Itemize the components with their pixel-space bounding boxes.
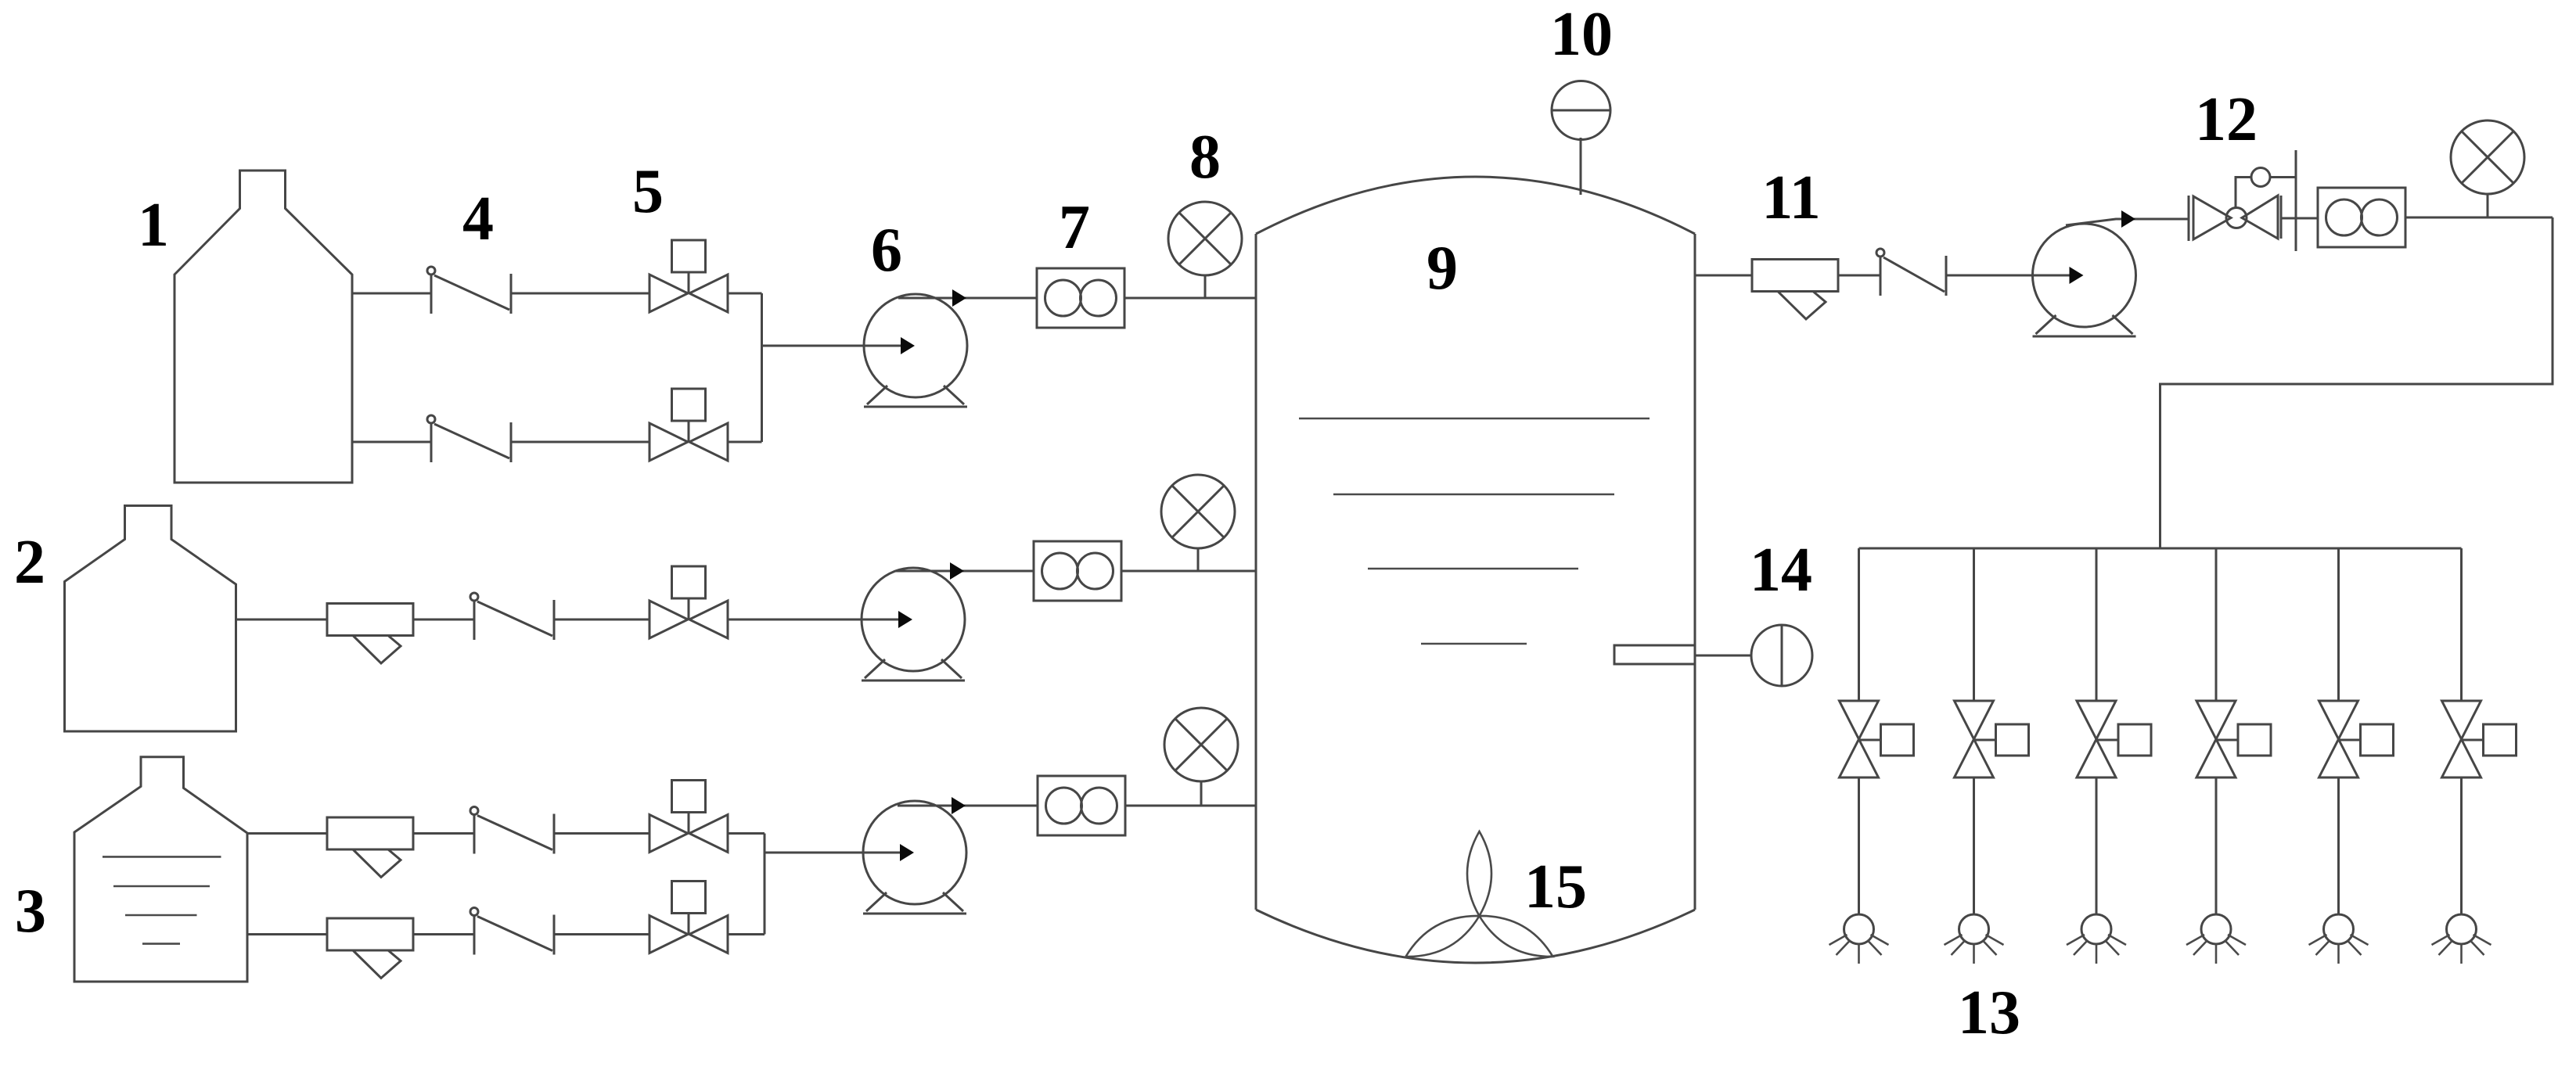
wire valve 12 to flowmeter <box>2281 217 2318 220</box>
svg-text:10: 10 <box>1550 0 1613 69</box>
check valve 4a <box>427 267 511 314</box>
wire valve tank3 bottom to junction <box>728 933 765 935</box>
wire strainer to check valve tank2 <box>413 619 474 621</box>
strainer tank3 top <box>327 817 413 878</box>
svg-text:12: 12 <box>2195 85 2258 154</box>
manifold valve branch5 <box>2319 701 2394 777</box>
pump row3 <box>863 801 966 914</box>
wire check valve 4a to valve 5a <box>511 293 649 295</box>
manifold valve branch1 <box>1840 701 1914 777</box>
wire check valve 4b to valve 5b <box>511 441 649 443</box>
arrow pump row2 outlet <box>950 562 964 580</box>
wire loop down right <box>2160 217 2553 548</box>
gauge 10 <box>1552 81 1610 140</box>
svg-text:11: 11 <box>1761 163 1821 232</box>
wire branch2 to nozzle <box>1973 777 1975 915</box>
wire vessel to strainer 11 <box>1695 275 1752 277</box>
check valve 4b <box>427 415 511 462</box>
wire flowmeter row3 to vessel <box>1125 805 1257 807</box>
control valve tank3 top <box>649 781 728 853</box>
pump 6 <box>864 294 967 407</box>
port nozzle 14 <box>1614 645 1695 664</box>
wire branch6 drop <box>2460 548 2463 702</box>
wire flowmeter 7 to vessel <box>1124 297 1257 300</box>
svg-text:2: 2 <box>14 528 45 597</box>
wire pump row4 outlet <box>2066 219 2189 225</box>
arrow pump row3 outlet <box>952 797 966 814</box>
gauge 14 <box>1751 625 1812 686</box>
wire tank2 to strainer <box>236 619 328 621</box>
gauge row4 <box>2451 120 2524 194</box>
nozzle branch4 <box>2186 914 2246 964</box>
svg-text:1: 1 <box>138 191 169 260</box>
pump row4 <box>2033 224 2136 336</box>
wire strainer to check valve tank3 bottom <box>413 933 474 935</box>
wire branch4 drop <box>2215 548 2218 702</box>
wire junction vertical tank3 <box>764 834 766 935</box>
wire flowmeter row2 to vessel <box>1121 570 1257 573</box>
control valve tank3 bottom <box>649 881 728 953</box>
control valve 5a <box>649 240 728 312</box>
svg-text:13: 13 <box>1958 978 2020 1047</box>
nozzle branch2 <box>1945 914 2004 964</box>
manifold valve branch3 <box>2077 701 2151 777</box>
pump row2 <box>862 568 965 680</box>
svg-text:7: 7 <box>1059 193 1090 262</box>
wire branch3 drop <box>2096 548 2098 702</box>
wire gauge 10 stem <box>1580 138 1582 195</box>
wire branch6 to nozzle <box>2460 777 2463 915</box>
flowmeter 7 <box>1037 268 1124 328</box>
wire junction vertical tank1 <box>761 293 763 442</box>
wire branch1 drop <box>1858 548 1860 702</box>
strainer 11 <box>1752 260 1838 320</box>
check valve tank3 top <box>470 807 554 854</box>
wire check valve to valve tank3 bottom <box>554 933 649 935</box>
check valve tank3 bottom <box>470 908 554 955</box>
agitator 15 <box>1406 831 1553 957</box>
wire tank1 to check valve 4b <box>352 441 431 443</box>
tank 2 <box>65 506 236 732</box>
wire tank3 to strainer bottom <box>247 933 327 935</box>
wire flowmeter row4 to corner <box>2405 217 2553 219</box>
svg-text:3: 3 <box>15 877 46 946</box>
svg-text:5: 5 <box>632 157 664 226</box>
control valve tank2 <box>649 566 728 638</box>
gauge row3 <box>1164 708 1238 781</box>
nozzle branch5 <box>2309 914 2369 964</box>
wire valve tank3 top to junction <box>728 832 765 835</box>
wire pump row3 outlet <box>898 805 1038 807</box>
tank 3 <box>74 757 247 982</box>
wire valve 5a to junction <box>728 293 762 295</box>
flowmeter row3 <box>1038 776 1125 835</box>
strainer tank2 <box>327 604 413 664</box>
check valve tank2 <box>470 593 554 640</box>
vessel 9 <box>1256 177 1695 963</box>
wire check valve to valve tank2 <box>554 619 649 621</box>
wire branch5 drop <box>2337 548 2340 702</box>
strainer tank3 bottom <box>327 918 413 978</box>
flowmeter row4 <box>2318 188 2405 247</box>
nozzle branch1 <box>1829 914 1889 964</box>
arrow pump 6 outlet <box>952 289 966 307</box>
svg-text:15: 15 <box>1524 853 1587 921</box>
arrow pump row4 outlet <box>2121 210 2135 228</box>
wire strainer to check valve tank3 top <box>413 832 474 835</box>
manifold header 13 <box>1859 548 2462 550</box>
manifold valve branch6 <box>2442 701 2517 777</box>
wire pump 6 outlet <box>898 297 1037 300</box>
wire branch2 drop <box>1973 548 1975 702</box>
wire gauge row2 stem <box>1197 548 1200 571</box>
svg-text:9: 9 <box>1427 234 1458 303</box>
check valve line11 <box>1876 249 1946 296</box>
wire gauge row3 stem <box>1200 781 1203 806</box>
wire branch4 to nozzle <box>2215 777 2218 915</box>
wire branch3 to nozzle <box>2096 777 2098 915</box>
gauge 8 <box>1168 202 1242 275</box>
nozzle branch6 <box>2432 914 2491 964</box>
wire branch1 to nozzle <box>1858 777 1860 915</box>
wire strainer 11 to check valve <box>1838 275 1880 277</box>
manifold valve branch4 <box>2196 701 2271 777</box>
tank 1 <box>174 171 352 483</box>
wire tank3 to strainer top <box>247 832 327 835</box>
wire junction to pump 6 <box>762 345 912 347</box>
gauge row2 <box>1161 475 1235 548</box>
control valve 5b <box>649 389 728 461</box>
control valve 12 <box>2189 150 2296 251</box>
flowmeter row2 <box>1034 541 1121 601</box>
wire check valve to valve tank3 top <box>554 832 649 835</box>
wire valve 5b to junction <box>728 441 762 443</box>
nozzle branch3 <box>2067 914 2126 964</box>
wire junction to pump row3 <box>765 852 910 854</box>
wire port to gauge 14 <box>1695 655 1751 657</box>
wire check valve to pump row4 <box>1946 275 2079 277</box>
svg-text:14: 14 <box>1750 536 1812 605</box>
wire pump row2 outlet <box>896 570 1034 573</box>
svg-text:8: 8 <box>1189 123 1221 192</box>
manifold valve branch2 <box>1955 701 2029 777</box>
svg-text:4: 4 <box>462 185 494 253</box>
wire gauge 8 stem <box>1204 275 1207 298</box>
wire valve tank2 to pump <box>728 619 908 621</box>
wire gauge row4 stem <box>2487 194 2489 217</box>
wire branch5 to nozzle <box>2337 777 2340 915</box>
svg-text:6: 6 <box>871 216 902 285</box>
wire tank1 to check valve 4a <box>352 293 431 295</box>
